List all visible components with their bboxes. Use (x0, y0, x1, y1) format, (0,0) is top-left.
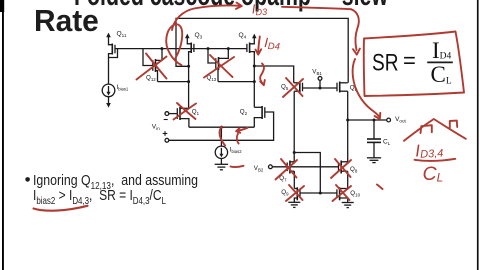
svg-text:Q12: Q12 (146, 75, 156, 82)
svg-text:Q8: Q8 (350, 166, 358, 173)
wire VB1 gate line Q5-Q6 (303, 87, 338, 89)
input terminal Vin- (165, 112, 177, 116)
svg-text:ID3: ID3 (251, 1, 267, 18)
red squiggle at tail node (220, 127, 248, 146)
wire Q3 drain column down to Q1 drain (188, 52, 190, 108)
wire mirror gate line Q9-Q10 (300, 192, 337, 194)
terminal VB1 (318, 77, 322, 89)
node dot bias-Q12 (160, 47, 163, 50)
wire Q8 source down to Q10 drain (347, 171, 349, 188)
VDD arrow at Q3 source (185, 34, 190, 43)
ground below CL (367, 158, 381, 163)
transistor Q7 (NMOS cascode, crossed out) (287, 161, 294, 174)
wire Q7 source down to Q9 drain (293, 171, 295, 188)
node dot mirror gate line (319, 192, 322, 195)
terminal VB2 (269, 165, 273, 169)
svg-text:=: = (403, 48, 416, 73)
title line 1 (cut off at top of frame) (74, 0, 388, 10)
wire Q13 drain to Q4 drain column (218, 81, 254, 83)
transistor Q1 (input NMOS, crossed out) (177, 107, 189, 127)
svg-text:Q3: Q3 (195, 32, 203, 39)
capacitor CL (367, 120, 381, 158)
transistor Q9 (mirror NMOS, crossed out) (294, 187, 300, 202)
red X over Q12 (137, 54, 167, 80)
wire tail to Ibias2 (220, 127, 222, 146)
transistor Q4 (PMOS current source) (247, 43, 254, 54)
red hook down at right of loop (351, 9, 360, 54)
svg-text:CL: CL (383, 139, 391, 146)
svg-text:ID4: ID4 (432, 38, 452, 63)
red X over Q1 (174, 103, 197, 120)
red I_D4 down arrow (256, 37, 262, 55)
node dot loop takeoff (187, 65, 190, 68)
node dot Q13 drain junction (253, 80, 256, 83)
wire tail line (189, 126, 254, 128)
node dot bias-Q13 left (207, 47, 210, 50)
node dot Q12 drain junction (187, 80, 190, 83)
red X over Q9 (286, 185, 304, 201)
red squiggle arrow below fold node (260, 64, 265, 86)
node dot output (346, 119, 349, 122)
node dot bias-Q13 right (227, 47, 230, 50)
transistor Q10 (mirror NMOS, crossed out) (337, 187, 348, 202)
red loop around Q3-drain wire (166, 24, 182, 65)
svg-text:Q1: Q1 (192, 109, 200, 116)
wire Vin+ to Q2 gate (169, 112, 274, 140)
VDD arrow at Q4 source (252, 34, 257, 43)
frame right border (477, 0, 479, 270)
node dot fold node I_D4 (253, 65, 256, 68)
red X over Q10 (333, 185, 352, 201)
SR formula fraction bar (427, 61, 453, 63)
ground below Q9 (288, 202, 300, 207)
wire VB2 gate line Q7-Q8 (272, 166, 338, 168)
VDD arrow at Q11 source (106, 33, 111, 42)
current source Ibias2 (215, 146, 227, 158)
frame left border (0, 0, 4, 270)
wire Q6 drain down to output node and Q8 (347, 91, 349, 162)
red dash under Ibias2 label (231, 166, 244, 167)
svg-text:Ibias1: Ibias1 (117, 84, 129, 91)
transistor Q5 (PMOS cascode, crossed out) (294, 82, 303, 93)
transistor Q6 (PMOS cascode) (337, 82, 348, 93)
node dot mirror takeoff (293, 151, 296, 154)
transistor Q8 (NMOS cascode, crossed out) (339, 161, 348, 174)
wire Q4 drain column down to Q2 drain (253, 52, 255, 107)
transistor Q12 (clamp PMOS, crossed out) (143, 49, 162, 82)
wire gate bias line Q11-Q3-Q4 (115, 48, 247, 50)
transistor Q2 (input NMOS) (254, 106, 264, 127)
wire Q12 drain to Q3 drain column (158, 81, 189, 83)
svg-text:CL: CL (423, 163, 444, 185)
wire Q5 drain down to Q7 (293, 91, 295, 162)
red roof sketch right (404, 119, 466, 141)
wire Q11 drain down to Ibias1 (108, 58, 110, 85)
wire output node to Vout terminal (348, 119, 387, 121)
svg-text:ID3,4: ID3,4 (415, 140, 444, 161)
wire mirror L to Q9/Q10 gates (294, 153, 320, 194)
red I_D3 arrow left segment (172, 3, 242, 30)
svg-text:Ibias2: Ibias2 (230, 147, 242, 154)
transistor Q3 (PMOS current source) (187, 43, 194, 54)
terminal Vout (387, 118, 391, 122)
red box around SR formula (364, 32, 464, 97)
node dot tail (220, 126, 223, 129)
node dot CL branch (373, 119, 376, 122)
svg-text:Q5: Q5 (281, 84, 289, 91)
svg-text:Q2: Q2 (240, 109, 248, 116)
input terminal Vin+ (165, 138, 169, 142)
red X over Q8 (331, 159, 351, 178)
red X over Q7 (276, 159, 298, 180)
transistor Q11 (diode-connected PMOS bias) (109, 42, 118, 58)
svg-text:Q9: Q9 (281, 189, 289, 196)
red tick below Vout area (377, 185, 383, 190)
wire Ibias2 to ground (220, 159, 222, 165)
svg-text:SR: SR (372, 50, 399, 77)
ground below Q10 (342, 203, 354, 208)
red underline under bullet Ibias2 (34, 206, 88, 211)
red fraction bar (415, 159, 456, 161)
transistor Q13 (clamp PMOS, crossed out) (208, 49, 228, 82)
svg-text:VB1: VB1 (312, 69, 322, 76)
svg-text:Q10: Q10 (350, 190, 360, 197)
red I_D3 arrow right segment (282, 7, 351, 9)
svg-text:CL: CL (431, 62, 452, 87)
red X over Q5 (283, 78, 303, 97)
minus sign (164, 119, 168, 121)
node dot VB1 (319, 87, 322, 90)
red wavy stroke down to Vout (353, 59, 381, 119)
svg-text:ID4: ID4 (264, 35, 281, 53)
svg-text:Vout: Vout (395, 116, 407, 123)
bullet point dot (25, 177, 30, 182)
wire big loop over the top to Q6 (176, 18, 348, 82)
VSS arrow below Ibias1 (106, 97, 111, 108)
title line 2 (34, 6, 99, 37)
bullet text line 1 (33, 173, 198, 194)
svg-text:Q11: Q11 (117, 31, 127, 38)
bullet text line 2 (33, 188, 166, 209)
ground below Ibias2 (215, 164, 228, 170)
wire fold node to Q5 source (254, 66, 293, 83)
svg-text:Vin: Vin (152, 124, 160, 131)
plus sign (163, 131, 168, 136)
red X over Q13 (204, 55, 234, 78)
svg-text:VB2: VB2 (254, 165, 264, 172)
current source Ibias1 (102, 84, 115, 97)
svg-text:Q4: Q4 (239, 32, 247, 39)
